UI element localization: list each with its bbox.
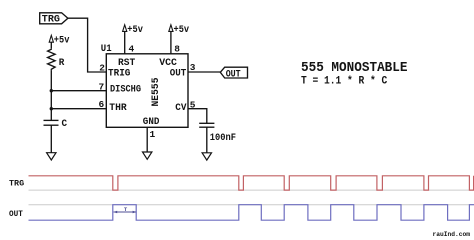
wire pin 5 to capacitor 100nF [188,109,207,124]
svg-text:rauInd.com: rauInd.com [433,231,471,239]
capacitor 100nF [199,123,214,127]
annotation T dimension [113,206,136,213]
svg-text:+5v: +5v [127,25,143,36]
ground below 100nF [202,153,211,160]
svg-text:OUT: OUT [226,69,241,80]
node junction to pin 7 [50,89,53,92]
waveform TRG trace [29,176,474,190]
svg-text:+5v: +5v [174,25,190,36]
svg-text:OUT: OUT [170,69,187,80]
wire R to capacitor C [50,71,52,121]
wire pin 3 to OUT connector [188,71,220,73]
wire node to pin 6 [51,108,106,110]
svg-text:NE555: NE555 [151,78,162,107]
ground below pin 1 [143,152,152,159]
op IC U1 NE555 body [106,54,188,128]
svg-text:4: 4 [129,44,135,55]
svg-text:U1: U1 [101,44,112,55]
power +5v above resistor R [49,35,69,48]
svg-text:T = 1.1 * R * C: T = 1.1 * R * C [301,75,388,87]
waveform OUT trace [29,205,474,221]
svg-text:7: 7 [98,81,104,92]
svg-text:1: 1 [150,129,156,140]
connector OUT [220,67,247,80]
svg-text:CV: CV [175,103,186,114]
svg-text:R: R [59,58,65,69]
ground below C [47,153,56,160]
svg-text:+5v: +5v [54,35,70,46]
svg-text:100nF: 100nF [210,133,236,144]
waveform OUT reference line [29,204,474,206]
power +5v above pin 4 [123,25,143,54]
svg-text:8: 8 [174,44,180,55]
svg-text:OUT: OUT [9,209,23,219]
svg-text:555 MONOSTABLE: 555 MONOSTABLE [301,61,408,76]
connector TRG [40,13,68,26]
power +5v above pin 8 [169,25,189,54]
capacitor C [44,120,59,125]
svg-text:TRG: TRG [42,15,60,26]
wire node to pin 7 [51,90,106,92]
wire pin 1 to ground [146,127,148,152]
svg-text:GND: GND [143,117,160,128]
wire 100nF to ground [206,127,208,153]
wire TRG to pin 2 [68,18,106,72]
waveform TRG reference line [29,189,474,191]
resistor R [48,48,56,70]
svg-text:TRIG: TRIG [108,69,130,80]
svg-text:C: C [62,119,68,130]
svg-text:2: 2 [99,63,105,74]
wire C to ground [50,125,52,153]
node junction to pin 6 [50,107,53,110]
svg-text:THR: THR [109,103,126,114]
svg-text:TRG: TRG [9,179,24,189]
svg-text:DISCHG: DISCHG [110,85,141,96]
svg-text:6: 6 [98,99,104,110]
